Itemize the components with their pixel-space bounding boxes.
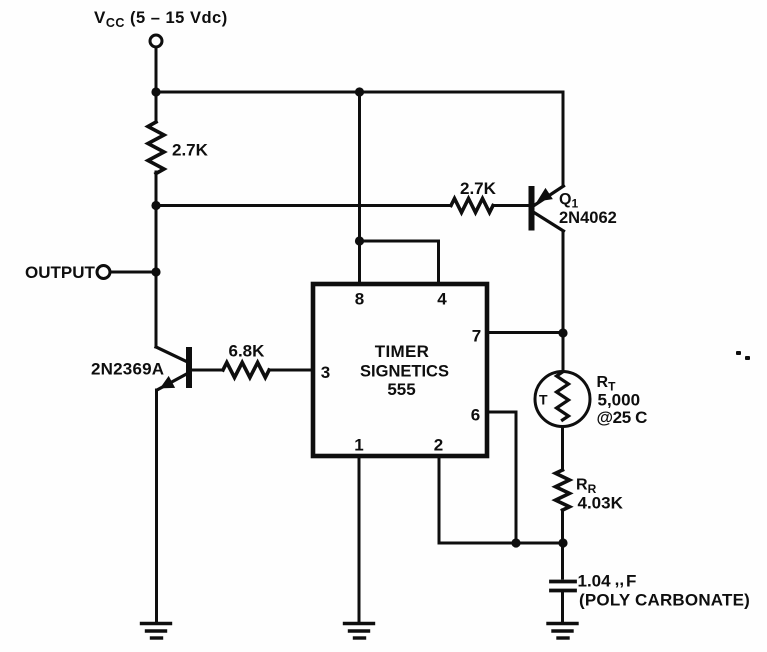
svg-text:2: 2	[434, 436, 443, 455]
label 1.04 uF	[578, 570, 637, 591]
svg-text:T: T	[539, 392, 548, 408]
svg-text:4: 4	[437, 290, 447, 309]
svg-text:@25 C: @25 C	[597, 408, 648, 427]
wire VCC to top rail	[155, 48, 158, 93]
resistor R2 2.7K horizontal	[451, 199, 493, 213]
svg-text:Q1: Q1	[559, 191, 578, 211]
wire pin 2 down and right	[439, 456, 563, 543]
resistor R1 2.7K vertical	[148, 122, 164, 174]
wire Q1 collector down	[562, 231, 565, 371]
wire capacitor to ground	[561, 591, 564, 622]
label OUTPUT	[25, 263, 96, 282]
label T inside thermistor	[539, 392, 548, 408]
transistor Q2 2N2369A	[156, 347, 189, 390]
wire thermistor to resistor RR	[561, 427, 564, 471]
transistor Q1 2N4062	[532, 92, 564, 231]
pin 7 label	[472, 327, 481, 346]
VCC terminal	[150, 35, 162, 47]
label 2N2369A	[91, 360, 164, 379]
label RT 5,000 @25 C	[597, 374, 648, 427]
label SIGNETICS	[360, 363, 449, 381]
wire Q2 base to resistor 6.8K	[192, 369, 224, 372]
thermistor RT	[535, 372, 590, 427]
svg-text:4.03K: 4.03K	[578, 494, 624, 513]
node base-line junction	[151, 201, 160, 210]
pin 6 label	[471, 406, 480, 425]
ground capacitor	[548, 624, 577, 639]
svg-text:2N4062: 2N4062	[559, 209, 617, 227]
label POLY CARBONATE	[579, 591, 750, 610]
wire top rail	[156, 91, 563, 94]
svg-text:2N2369A: 2N2369A	[91, 360, 164, 379]
svg-text:1.04,,F: 1.04,,F	[578, 570, 637, 591]
node pin6/pin2 junction	[511, 538, 520, 547]
capacitor C1	[551, 582, 575, 591]
label RR 4.03K	[576, 477, 624, 513]
label 2.7K	[172, 141, 209, 160]
wire OUTPUT to node	[111, 271, 157, 274]
speck marks	[736, 351, 750, 360]
svg-text:555: 555	[387, 380, 415, 399]
wire output node down to Q2 collector	[155, 272, 158, 347]
label 555	[387, 380, 415, 399]
svg-text:6: 6	[471, 406, 480, 425]
wire rail down to resistor R1	[155, 92, 158, 122]
pin 3 label	[321, 363, 330, 382]
svg-text:TIMER: TIMER	[375, 342, 429, 361]
wire pin 7 to right rail	[487, 331, 563, 334]
svg-text:VCC (5 – 15 Vdc): VCC (5 – 15 Vdc)	[94, 8, 228, 30]
svg-text:8: 8	[355, 290, 364, 309]
svg-text:(POLY CARBONATE): (POLY CARBONATE)	[579, 591, 750, 610]
pin 8 label	[355, 290, 364, 309]
label Q1	[559, 191, 578, 211]
svg-text:2.7K: 2.7K	[172, 141, 209, 160]
svg-text:6.8K: 6.8K	[229, 342, 266, 361]
wire pin 8 from top rail	[358, 92, 361, 284]
label VCC (5 - 15 Vdc)	[94, 8, 228, 30]
resistor R3 6.8K	[223, 363, 269, 378]
op-amp U1 555 timer box	[313, 284, 487, 456]
wire resistor R2 to Q1 base	[493, 204, 529, 207]
svg-text:7: 7	[472, 327, 481, 346]
wire pin 6 right and down	[487, 412, 516, 543]
svg-text:OUTPUT: OUTPUT	[25, 263, 96, 282]
pin 4 label	[437, 290, 447, 309]
wire resistor R1 to output node	[155, 172, 158, 272]
wire pin 4 branch	[360, 241, 439, 284]
wire base line to 2.7K right resistor	[156, 204, 451, 207]
node OUTPUT junction	[151, 267, 160, 276]
wire pin 1 to ground	[358, 456, 361, 621]
label 6.8K	[229, 342, 266, 361]
node top rail junction	[355, 87, 364, 96]
svg-text:SIGNETICS: SIGNETICS	[360, 363, 449, 381]
svg-text:5,000: 5,000	[598, 391, 641, 410]
wire Q2 emitter to ground	[155, 390, 158, 621]
node bottom junction	[558, 538, 567, 547]
resistor RR 4.03K	[556, 470, 570, 510]
pin 1 label	[354, 436, 363, 455]
label 2N4062	[559, 209, 617, 227]
svg-text:1: 1	[354, 436, 363, 455]
wire resistor 6.8K to pin 3	[269, 369, 313, 372]
ground Q2 emitter	[142, 624, 171, 639]
node pin7 junction	[558, 328, 567, 337]
OUTPUT terminal	[97, 266, 110, 279]
svg-text:2.7K: 2.7K	[460, 179, 497, 198]
label TIMER	[375, 342, 429, 361]
wire RR down to junction	[561, 510, 564, 578]
pin 2 label	[434, 436, 443, 455]
node pin4 branch junction	[355, 236, 364, 245]
label 2.7K right	[460, 179, 497, 198]
svg-text:3: 3	[321, 363, 330, 382]
node top-left junction	[151, 87, 160, 96]
ground pin 1	[345, 624, 374, 639]
